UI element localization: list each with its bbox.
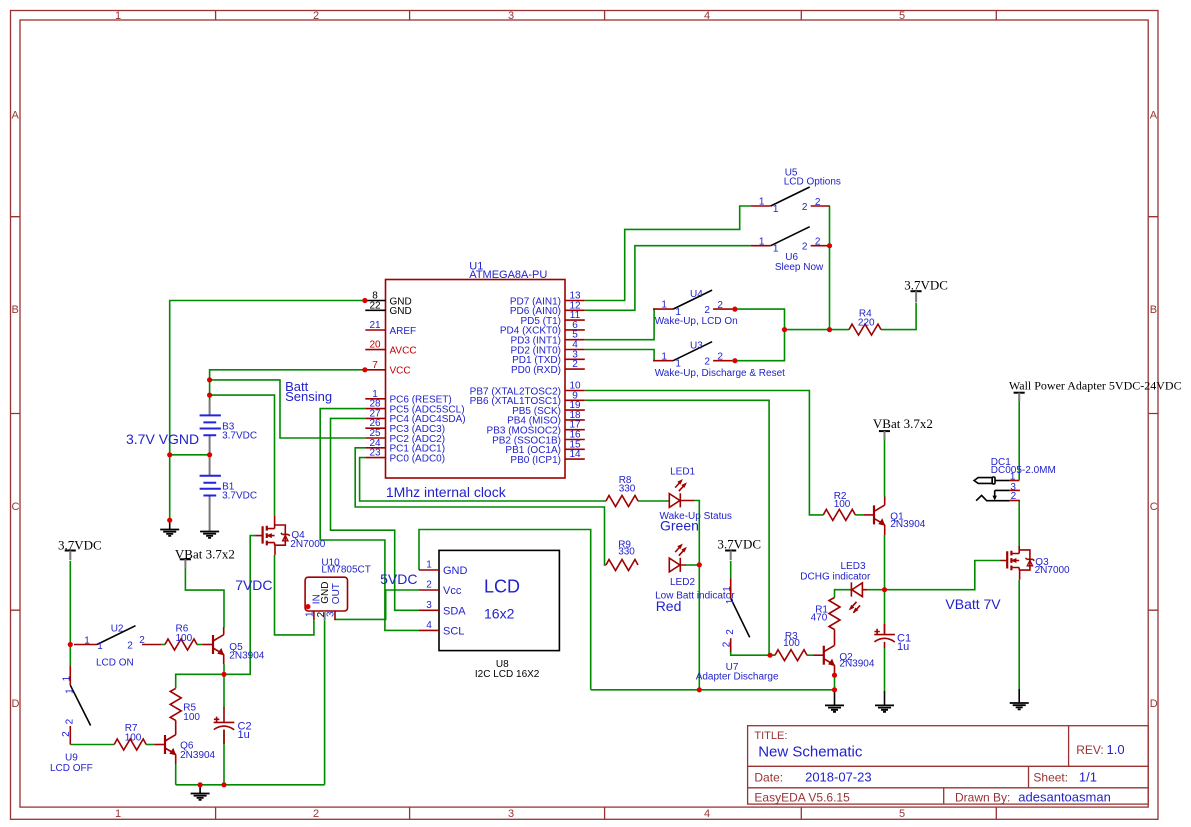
wire R7 to Q6 base bbox=[146, 744, 154, 746]
pin 22 GND bbox=[365, 300, 411, 317]
svg-text:23: 23 bbox=[369, 448, 381, 459]
switch U4 Wake-Up LCD On bbox=[653, 289, 738, 327]
svg-text:20: 20 bbox=[369, 340, 381, 351]
wire bottom net LCD GND to Q2 ground bbox=[591, 689, 835, 691]
svg-text:ATMEGA8A-PU: ATMEGA8A-PU bbox=[469, 269, 547, 281]
svg-text:330: 330 bbox=[619, 484, 636, 495]
svg-text:100: 100 bbox=[834, 499, 851, 510]
svg-text:2: 2 bbox=[704, 357, 710, 368]
wire R4 to 3.7VDC flag bbox=[881, 303, 916, 330]
wire VGND link bbox=[170, 454, 210, 456]
svg-text:D: D bbox=[12, 698, 20, 710]
wire U10 OUT to LCD Vcc bbox=[335, 590, 419, 620]
pin 8 GND bbox=[365, 291, 411, 308]
pin 16 PB2 (SSOC1B) bbox=[492, 430, 585, 447]
svg-text:REV:: REV: bbox=[1076, 743, 1104, 757]
svg-text:7VDC: 7VDC bbox=[235, 577, 272, 593]
pin 9 PB6 (XTAL1TOSC1) bbox=[470, 390, 585, 407]
battery B1 3.7VDC bbox=[200, 455, 258, 532]
wire U2 pin2 to R6 bbox=[161, 644, 165, 646]
wire junction to R5 bbox=[176, 674, 224, 688]
junction dot rail ground bbox=[198, 782, 203, 787]
svg-text:LCD: LCD bbox=[484, 577, 520, 597]
svg-text:2N7000: 2N7000 bbox=[1035, 565, 1070, 576]
wire LCD GND pin loop bbox=[419, 530, 591, 690]
svg-text:LED1: LED1 bbox=[670, 466, 695, 477]
regulator U10 LM7805CT bbox=[305, 558, 371, 621]
svg-text:I2C LCD 16X2: I2C LCD 16X2 bbox=[475, 669, 540, 680]
row tick marks right bbox=[1148, 217, 1158, 611]
ground under Q3 bbox=[1010, 689, 1029, 709]
junction dot U4 pin2 bbox=[732, 307, 737, 312]
svg-text:7: 7 bbox=[372, 360, 378, 371]
ground under C1 bbox=[875, 691, 894, 712]
svg-text:470: 470 bbox=[811, 612, 828, 623]
junction dot battery tap upper bbox=[207, 377, 212, 382]
power flag VBat 3.7x2 left bbox=[175, 546, 235, 568]
transistor Q5 2N3904 bbox=[202, 627, 264, 664]
svg-text:LCD OFF: LCD OFF bbox=[50, 763, 93, 774]
svg-text:LED2: LED2 bbox=[670, 577, 695, 588]
title block outline bbox=[748, 726, 1149, 804]
junction dot VGND battery mid bbox=[207, 452, 212, 457]
LED2 red bbox=[669, 544, 695, 589]
pin 7 VCC bbox=[365, 360, 410, 377]
svg-text:3.7V VGND: 3.7V VGND bbox=[126, 431, 199, 447]
svg-text:LCD Options: LCD Options bbox=[784, 176, 841, 187]
junction dot battery tap lower bbox=[207, 393, 212, 398]
wire Q5 collector to VBat flag bbox=[185, 567, 224, 628]
pin 2 PD0 (RXD) bbox=[511, 359, 585, 376]
mosfet Q3 2N7000 bbox=[1001, 546, 1071, 580]
transistor Q2 2N3904 bbox=[813, 630, 875, 676]
svg-text:2: 2 bbox=[704, 305, 710, 316]
row tick marks left bbox=[11, 217, 21, 611]
svg-text:2: 2 bbox=[61, 731, 72, 737]
resistor R5 100 vertical bbox=[170, 688, 200, 723]
switch U3 Wake-Up Discharge and Reset bbox=[653, 341, 785, 379]
svg-text:1: 1 bbox=[759, 236, 765, 247]
svg-text:4: 4 bbox=[426, 620, 432, 631]
svg-text:OUT: OUT bbox=[331, 583, 342, 604]
svg-text:Drawn By:: Drawn By: bbox=[955, 791, 1010, 805]
svg-text:1: 1 bbox=[84, 635, 90, 646]
wire C1 bottom to ground bbox=[884, 648, 886, 691]
svg-text:1: 1 bbox=[722, 586, 733, 592]
wire Q1 collector to VBat flag bbox=[884, 438, 886, 497]
wire U10 IN to Q4 source bbox=[275, 555, 314, 635]
title block Sheet divider bbox=[1028, 766, 1030, 788]
svg-text:1u: 1u bbox=[238, 729, 250, 741]
ground under Q2 bbox=[825, 690, 844, 712]
svg-text:1: 1 bbox=[661, 300, 667, 311]
title block row line 2 bbox=[748, 787, 1149, 789]
svg-text:4: 4 bbox=[704, 10, 710, 22]
svg-text:2: 2 bbox=[717, 300, 723, 311]
svg-text:1: 1 bbox=[65, 688, 76, 694]
svg-text:5: 5 bbox=[899, 10, 905, 22]
svg-text:2N3904: 2N3904 bbox=[180, 750, 215, 761]
svg-text:2: 2 bbox=[1011, 491, 1017, 502]
svg-text:AREF: AREF bbox=[390, 326, 417, 337]
svg-text:Wake-Up, Discharge & Reset: Wake-Up, Discharge & Reset bbox=[655, 368, 785, 379]
wire DC1 pin2 to Q3 drain bbox=[1018, 501, 1020, 550]
svg-text:SCL: SCL bbox=[443, 625, 464, 637]
pin 6 PD4 (XCKT0) bbox=[500, 320, 585, 337]
wire U7 flag to pin1 bbox=[730, 561, 732, 578]
svg-text:VBat 3.7x2: VBat 3.7x2 bbox=[175, 546, 235, 561]
svg-text:Vcc: Vcc bbox=[443, 585, 462, 597]
svg-text:Wake-Up, LCD On: Wake-Up, LCD On bbox=[655, 316, 738, 327]
svg-text:DCHG indicator: DCHG indicator bbox=[800, 571, 871, 582]
svg-text:U4: U4 bbox=[690, 289, 703, 300]
svg-text:100: 100 bbox=[183, 712, 200, 723]
switch U2 LCD ON bbox=[74, 624, 161, 669]
junction dot U2 U9 node bbox=[68, 642, 73, 647]
resistor R3 100 bbox=[775, 631, 807, 661]
power flag VBat 3.7x2 right bbox=[873, 416, 933, 440]
svg-text:U2: U2 bbox=[111, 624, 124, 635]
title block REV divider bbox=[1068, 726, 1070, 767]
junction dot LED2 cathode bbox=[697, 562, 702, 567]
column tick marks top bbox=[216, 11, 997, 21]
svg-text:330: 330 bbox=[618, 547, 635, 558]
wire Q4 gate to Q5 emitter junction bbox=[224, 536, 256, 675]
svg-text:LM7805CT: LM7805CT bbox=[321, 565, 370, 576]
svg-text:New Schematic: New Schematic bbox=[758, 744, 863, 761]
wire PD3 pin5 to U4 pin1 bbox=[585, 309, 654, 340]
svg-text:Red: Red bbox=[656, 598, 682, 614]
svg-text:2: 2 bbox=[426, 580, 432, 591]
wire U9 pin2 to R7 bbox=[70, 744, 114, 746]
pin 26 PC3 (ADC3) bbox=[365, 418, 445, 435]
svg-text:2: 2 bbox=[802, 242, 808, 253]
junction dot LED3 Q1 node bbox=[882, 587, 887, 592]
wire Q5 emitter to junction bbox=[223, 664, 225, 708]
wire C2 bottom to rail bbox=[223, 730, 225, 785]
svg-text:2: 2 bbox=[717, 352, 723, 363]
pin 4 PD2 (INT0) bbox=[510, 340, 584, 357]
wire PC0 to R8 bbox=[360, 458, 606, 501]
svg-text:1u: 1u bbox=[897, 641, 909, 653]
junction dot U3 pin2 bbox=[732, 358, 737, 363]
svg-text:2N7000: 2N7000 bbox=[290, 539, 325, 550]
svg-text:GND: GND bbox=[443, 565, 468, 577]
svg-text:3.7VDC: 3.7VDC bbox=[58, 538, 102, 553]
ground under battery B1 bbox=[200, 532, 219, 538]
svg-text:2: 2 bbox=[725, 629, 736, 635]
wire Q2 emitter to ground junction bbox=[834, 675, 836, 690]
wire PC5 to LCD SCL bbox=[320, 409, 419, 631]
connector DC1 DC005-2.0MM bbox=[974, 457, 1056, 502]
pin 19 PB5 (SCK) bbox=[512, 400, 585, 417]
wire R2 to Q1 base bbox=[855, 514, 863, 516]
svg-text:2: 2 bbox=[815, 197, 821, 208]
svg-text:1: 1 bbox=[115, 10, 121, 22]
capacitor C1 1u bbox=[874, 624, 911, 653]
svg-text:TITLE:: TITLE: bbox=[754, 730, 787, 742]
svg-text:adesantoasman: adesantoasman bbox=[1018, 790, 1111, 805]
wire U5 pin2 down to R4 net bbox=[829, 206, 831, 330]
junction dot bottom net bbox=[697, 687, 702, 692]
wire LED2 cathode to junction bbox=[686, 564, 699, 566]
pin 18 PB4 (MISO) bbox=[507, 410, 585, 427]
svg-text:U9: U9 bbox=[65, 752, 78, 763]
wire R4 line left bbox=[785, 329, 850, 331]
wire LED1 cathode down to LED2 junction bbox=[694, 501, 699, 690]
junction dot R4 U5 vertical bbox=[827, 327, 832, 332]
junction dot pin8 bbox=[362, 298, 367, 303]
svg-text:A: A bbox=[1150, 110, 1158, 122]
junction dot Q2 ground bbox=[832, 687, 837, 692]
svg-text:1: 1 bbox=[115, 808, 121, 820]
pin 28 PC5 (ADC5SCL) bbox=[365, 399, 464, 416]
svg-text:VBat 3.7x2: VBat 3.7x2 bbox=[873, 416, 933, 431]
svg-text:3: 3 bbox=[326, 611, 337, 617]
wire 3.7VDC flag to U2 junction bbox=[69, 561, 71, 645]
svg-text:3.7VDC: 3.7VDC bbox=[904, 278, 948, 293]
ground bottom left rail bbox=[191, 785, 210, 800]
pin 5 PD3 (INT1) bbox=[510, 330, 584, 347]
svg-text:1: 1 bbox=[305, 611, 316, 617]
power flag 3.7VDC top left bbox=[58, 538, 102, 561]
svg-text:1: 1 bbox=[97, 641, 103, 652]
pin 23 PC0 (ADC0) bbox=[365, 448, 445, 465]
svg-text:LCD ON: LCD ON bbox=[96, 658, 134, 669]
power flag 3.7VDC near U7 bbox=[717, 537, 761, 561]
svg-text:Wall Power Adapter 5VDC-24VDC: Wall Power Adapter 5VDC-24VDC bbox=[1009, 379, 1182, 393]
svg-text:1: 1 bbox=[759, 197, 765, 208]
resistor R2 100 bbox=[823, 491, 855, 520]
svg-text:4: 4 bbox=[704, 808, 710, 820]
wire wall flag to DC1 pin1 bbox=[1018, 399, 1020, 480]
svg-text:D: D bbox=[1150, 698, 1158, 710]
svg-text:5VDC: 5VDC bbox=[380, 571, 417, 587]
svg-text:2N3904: 2N3904 bbox=[890, 519, 925, 530]
pin 27 PC4 (ADC4SDA) bbox=[365, 408, 465, 425]
svg-text:2: 2 bbox=[313, 10, 319, 22]
svg-text:1: 1 bbox=[773, 204, 779, 215]
junction dot rail C2 bbox=[221, 782, 226, 787]
svg-text:2: 2 bbox=[313, 808, 319, 820]
transistor Q1 2N3904 bbox=[863, 497, 925, 536]
svg-text:21: 21 bbox=[369, 320, 381, 331]
pin 10 PB7 (XTAL2TOSC2) bbox=[470, 381, 585, 398]
junction dot ground left bbox=[167, 518, 172, 523]
pin 24 PC1 (ADC1) bbox=[365, 438, 445, 455]
junction dot U10 pin1 mark bbox=[305, 604, 310, 609]
resistor R9 330 bbox=[606, 540, 638, 571]
svg-text:2: 2 bbox=[127, 640, 133, 651]
junction dot R3 node bbox=[767, 653, 772, 658]
wire Q6 emitter to rail bbox=[175, 764, 177, 785]
resistor R8 330 bbox=[606, 475, 638, 506]
wire LED3 junction to C1 top bbox=[884, 590, 886, 634]
svg-text:100: 100 bbox=[783, 638, 800, 649]
svg-text:1: 1 bbox=[725, 598, 736, 604]
svg-text:3: 3 bbox=[426, 600, 432, 611]
wire Q1 emitter to LED3 junction bbox=[884, 535, 886, 590]
svg-text:1: 1 bbox=[773, 244, 779, 255]
pin 15 PB1 (OC1A) bbox=[505, 439, 584, 456]
svg-text:5: 5 bbox=[899, 808, 905, 820]
svg-text:B: B bbox=[12, 304, 19, 316]
svg-text:2: 2 bbox=[815, 237, 821, 248]
svg-text:3.7VDC: 3.7VDC bbox=[717, 537, 761, 552]
junction dot pin7 VCC bbox=[362, 367, 367, 372]
svg-text:AVCC: AVCC bbox=[390, 345, 417, 356]
pin 12 PD6 (AIN0) bbox=[510, 300, 585, 317]
svg-text:GND: GND bbox=[320, 582, 331, 604]
title block DrawnBy divider bbox=[943, 788, 945, 804]
svg-text:U3: U3 bbox=[690, 341, 703, 352]
svg-text:2018-07-23: 2018-07-23 bbox=[805, 769, 872, 784]
svg-text:1/1: 1/1 bbox=[1079, 769, 1097, 784]
wire PD7 pin13 to U5 pin1 bbox=[585, 206, 751, 301]
wire PC4 to LCD SDA bbox=[331, 418, 420, 610]
svg-text:GND: GND bbox=[390, 306, 412, 317]
wire battery sensing tap to PC2 pin25 bbox=[210, 380, 366, 438]
LED1 green bbox=[669, 466, 695, 507]
wire LED3 anode to junction bbox=[867, 589, 885, 591]
svg-text:100: 100 bbox=[176, 633, 193, 644]
junction dot U6 pin2 bbox=[827, 243, 832, 248]
mosfet Q4 2N7000 bbox=[256, 516, 326, 555]
LCD module U8 bbox=[419, 550, 559, 680]
wire Q3 source to ground bbox=[1018, 580, 1020, 689]
junction dot R4 U4 vertical bbox=[782, 327, 787, 332]
transistor Q6 2N3904 bbox=[154, 720, 215, 764]
svg-text:C: C bbox=[12, 501, 20, 513]
junction dot VGND left bbox=[167, 452, 172, 457]
svg-text:Adapter Discharge: Adapter Discharge bbox=[696, 671, 779, 682]
pin 17 PB3 (MOSIOC2) bbox=[487, 420, 585, 437]
switch U7 Adapter Discharge vertical bbox=[696, 578, 779, 682]
svg-text:100: 100 bbox=[125, 732, 142, 743]
pin 11 PD5 (T1) bbox=[520, 310, 584, 327]
capacitor C2 1u bbox=[214, 707, 252, 744]
junction dot Q2 emitter bbox=[832, 673, 837, 678]
pin 13 PD7 (AIN1) bbox=[510, 291, 585, 308]
svg-text:Sleep Now: Sleep Now bbox=[775, 262, 824, 273]
wire U7 pin2 to R3 junction bbox=[731, 644, 775, 656]
svg-text:EasyEDA V5.6.15: EasyEDA V5.6.15 bbox=[754, 791, 850, 805]
wire PD6 pin12 to U6 pin1 bbox=[585, 246, 751, 311]
svg-text:VCC: VCC bbox=[390, 366, 411, 377]
title block row line 1 bbox=[748, 765, 1149, 767]
wire R8 to LED1 bbox=[638, 500, 669, 502]
wire R6 to Q5 base bbox=[197, 644, 202, 646]
wire PD2 pin4 to U3 pin1 bbox=[585, 350, 654, 361]
svg-text:2: 2 bbox=[721, 641, 732, 647]
svg-text:2N3904: 2N3904 bbox=[229, 651, 264, 662]
wire bottom rail bbox=[176, 784, 325, 786]
svg-text:Green: Green bbox=[660, 518, 699, 534]
svg-text:1: 1 bbox=[61, 675, 72, 681]
wire PB7 pin10 to R2 bbox=[585, 391, 824, 515]
resistor R7 100 bbox=[114, 723, 146, 750]
switch U5 LCD Options bbox=[751, 168, 841, 215]
resistor R6 100 bbox=[165, 624, 197, 651]
svg-text:A: A bbox=[12, 110, 20, 122]
svg-text:PD0 (RXD): PD0 (RXD) bbox=[511, 365, 561, 376]
wire R3 to Q2 base bbox=[807, 654, 813, 656]
svg-text:PC0 (ADC0): PC0 (ADC0) bbox=[390, 453, 446, 464]
svg-text:2N3904: 2N3904 bbox=[839, 659, 874, 670]
wire PC1 to R9 bbox=[355, 448, 606, 565]
resistor R1 470 vertical bbox=[811, 598, 840, 630]
pin 3 PD1 (TXD) bbox=[512, 349, 585, 366]
resistor R4 220 bbox=[849, 309, 881, 336]
svg-text:1: 1 bbox=[426, 560, 432, 571]
wire junction to U9 pin1 bbox=[69, 645, 71, 666]
svg-text:SDA: SDA bbox=[443, 605, 466, 617]
svg-text:22: 22 bbox=[369, 300, 381, 311]
svg-text:Date:: Date: bbox=[754, 770, 783, 784]
svg-text:220: 220 bbox=[858, 318, 875, 329]
svg-text:1.0: 1.0 bbox=[1107, 742, 1125, 757]
svg-text:DC005-2.0MM: DC005-2.0MM bbox=[991, 465, 1056, 476]
ground near VGND battery bbox=[160, 520, 179, 536]
svg-text:3.7VDC: 3.7VDC bbox=[222, 491, 257, 502]
pin 1 PC6 (RESET) bbox=[365, 389, 451, 406]
svg-text:B: B bbox=[1150, 304, 1157, 316]
wire Q3 gate net bbox=[885, 561, 1001, 590]
svg-text:2: 2 bbox=[802, 202, 808, 213]
svg-text:14: 14 bbox=[569, 449, 581, 460]
column tick marks bottom bbox=[216, 807, 997, 819]
switch U6 Sleep Now bbox=[751, 227, 830, 274]
wire PB6 pin9 down to R3 junction bbox=[585, 400, 775, 655]
svg-text:C: C bbox=[1150, 501, 1158, 513]
battery B3 3.7VDC bbox=[200, 400, 258, 455]
svg-text:Sensing: Sensing bbox=[285, 389, 332, 404]
svg-text:2: 2 bbox=[65, 718, 76, 724]
junction dot Q5 emitter node bbox=[221, 672, 226, 677]
pin 14 PB0 (ICP1) bbox=[510, 449, 584, 466]
svg-text:3: 3 bbox=[508, 808, 514, 820]
power flag Wall Power Adapter bbox=[1009, 379, 1182, 401]
power flag 3.7VDC top right bbox=[904, 278, 948, 303]
op IC U1 body bbox=[386, 280, 566, 479]
svg-text:2: 2 bbox=[139, 635, 145, 646]
svg-text:16x2: 16x2 bbox=[484, 606, 515, 622]
wire battery top to Q4 drain bbox=[210, 395, 275, 516]
LED3 DCHG indicator bbox=[800, 561, 871, 613]
wire U4 pin2 to U3 pin2 loop bbox=[732, 309, 784, 361]
svg-text:PB0 (ICP1): PB0 (ICP1) bbox=[510, 455, 561, 466]
pin 25 PC2 (ADC2) bbox=[365, 428, 445, 445]
wire GND pin8 to left ground bbox=[170, 301, 365, 521]
svg-text:Sheet:: Sheet: bbox=[1033, 770, 1068, 784]
wire R1 top to LED3 cathode bbox=[835, 590, 852, 598]
svg-text:3.7VDC: 3.7VDC bbox=[222, 430, 257, 441]
pin 20 AVCC bbox=[365, 340, 416, 357]
svg-text:2: 2 bbox=[572, 359, 578, 370]
svg-text:1: 1 bbox=[661, 351, 667, 362]
pin 21 AREF bbox=[365, 320, 416, 337]
switch U9 LCD OFF vertical bbox=[50, 665, 93, 774]
svg-text:3: 3 bbox=[508, 10, 514, 22]
wire U10 GND down to bottom rail bbox=[324, 620, 326, 785]
svg-text:VBatt 7V: VBatt 7V bbox=[945, 596, 1001, 612]
wire VCC pin7 to battery top bbox=[210, 370, 365, 400]
svg-text:1Mhz internal clock: 1Mhz internal clock bbox=[386, 484, 507, 500]
